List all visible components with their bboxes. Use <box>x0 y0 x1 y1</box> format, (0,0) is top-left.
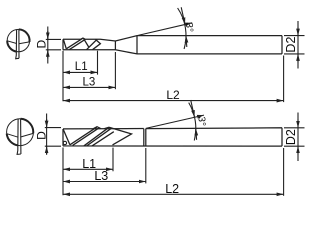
angle dimension top: extension line with arrow <box>137 23 192 36</box>
bottom tool serration crests <box>93 127 109 129</box>
label D2 bottom (rotated) <box>284 129 298 145</box>
dimension D bottom: extension lines <box>45 128 61 147</box>
label D2 top (rotated) <box>284 37 298 53</box>
label L2 top <box>166 88 180 102</box>
dimension D2 bottom: extension lines <box>284 128 305 146</box>
dimension D2 bottom: line and arrows <box>297 113 299 162</box>
end view blade bottom tool <box>17 119 21 155</box>
svg-text:L2: L2 <box>166 88 180 102</box>
label 3 degrees top (rotated) <box>183 22 194 32</box>
label L3 bottom <box>94 169 108 183</box>
end view left chord bottom tool <box>7 134 18 138</box>
dimension D top: extension lines <box>46 39 61 49</box>
top tool body outline <box>63 36 282 54</box>
dimension L3 top: line <box>63 86 115 88</box>
dimension D2 top: line and arrows <box>297 21 299 69</box>
dimension L1 top: line <box>63 71 98 73</box>
end view right chord top tool <box>19 42 30 44</box>
svg-text:D: D <box>35 131 49 140</box>
angle dimension top: arc arrows <box>181 7 187 47</box>
bottom tool body outline <box>63 128 282 146</box>
dimension L2 bottom: extension line <box>283 148 285 196</box>
top tool shank junction line <box>136 36 138 54</box>
dimension L2 top: line <box>63 100 284 102</box>
dimension L2 bottom: line <box>63 193 284 195</box>
top tool neck junction line <box>114 41 116 50</box>
label L3 top <box>83 77 96 89</box>
dimension L3 top: extension line <box>114 52 116 89</box>
svg-text:3°: 3° <box>196 116 207 126</box>
dimension L2 top: extension line <box>283 56 285 103</box>
svg-text:L3: L3 <box>83 77 96 89</box>
bottom tool corner curl <box>63 141 66 144</box>
label D top (rotated) <box>35 40 49 49</box>
label D bottom (rotated) <box>35 131 49 140</box>
dimension L3 bottom: line <box>63 181 146 183</box>
dimension L1 bottom: line <box>63 168 113 170</box>
label L1 bottom <box>82 157 96 171</box>
angle dimension bottom: arc arrows <box>191 100 197 140</box>
top tool flute lines <box>63 38 100 50</box>
dimension L3 bottom: extension line <box>145 148 147 183</box>
dimension D top: line and arrows <box>47 27 49 64</box>
end view circle top tool <box>7 29 29 51</box>
dimension D2 top: extension lines <box>284 36 305 54</box>
angle dimension bottom: extension line with arrow <box>146 115 204 128</box>
svg-text:L1: L1 <box>75 61 88 73</box>
svg-text:L2: L2 <box>165 182 179 196</box>
svg-text:L3: L3 <box>94 169 108 183</box>
angle dimension bottom: arc <box>189 103 196 141</box>
angle dimension top: arc <box>178 8 186 49</box>
label L1 top <box>75 61 88 73</box>
dimension L1 bottom: extension line <box>63 148 113 196</box>
end view left chord top tool <box>7 41 16 44</box>
label 3 degrees bottom (rotated) <box>196 116 207 126</box>
end view blade top tool <box>16 29 19 58</box>
label L2 bottom <box>165 182 179 196</box>
bottom tool flute lines <box>63 127 131 146</box>
svg-text:D2: D2 <box>284 129 298 145</box>
svg-text:3°: 3° <box>183 22 194 32</box>
dimension L1 top: extension lines <box>63 51 98 102</box>
bottom tool taper junction lines <box>144 129 146 146</box>
end view right chord bottom tool <box>21 133 34 137</box>
end view circle bottom tool <box>7 119 34 146</box>
dimension D bottom: line and arrows <box>46 114 48 155</box>
svg-text:D2: D2 <box>284 37 298 53</box>
svg-text:D: D <box>35 40 49 49</box>
